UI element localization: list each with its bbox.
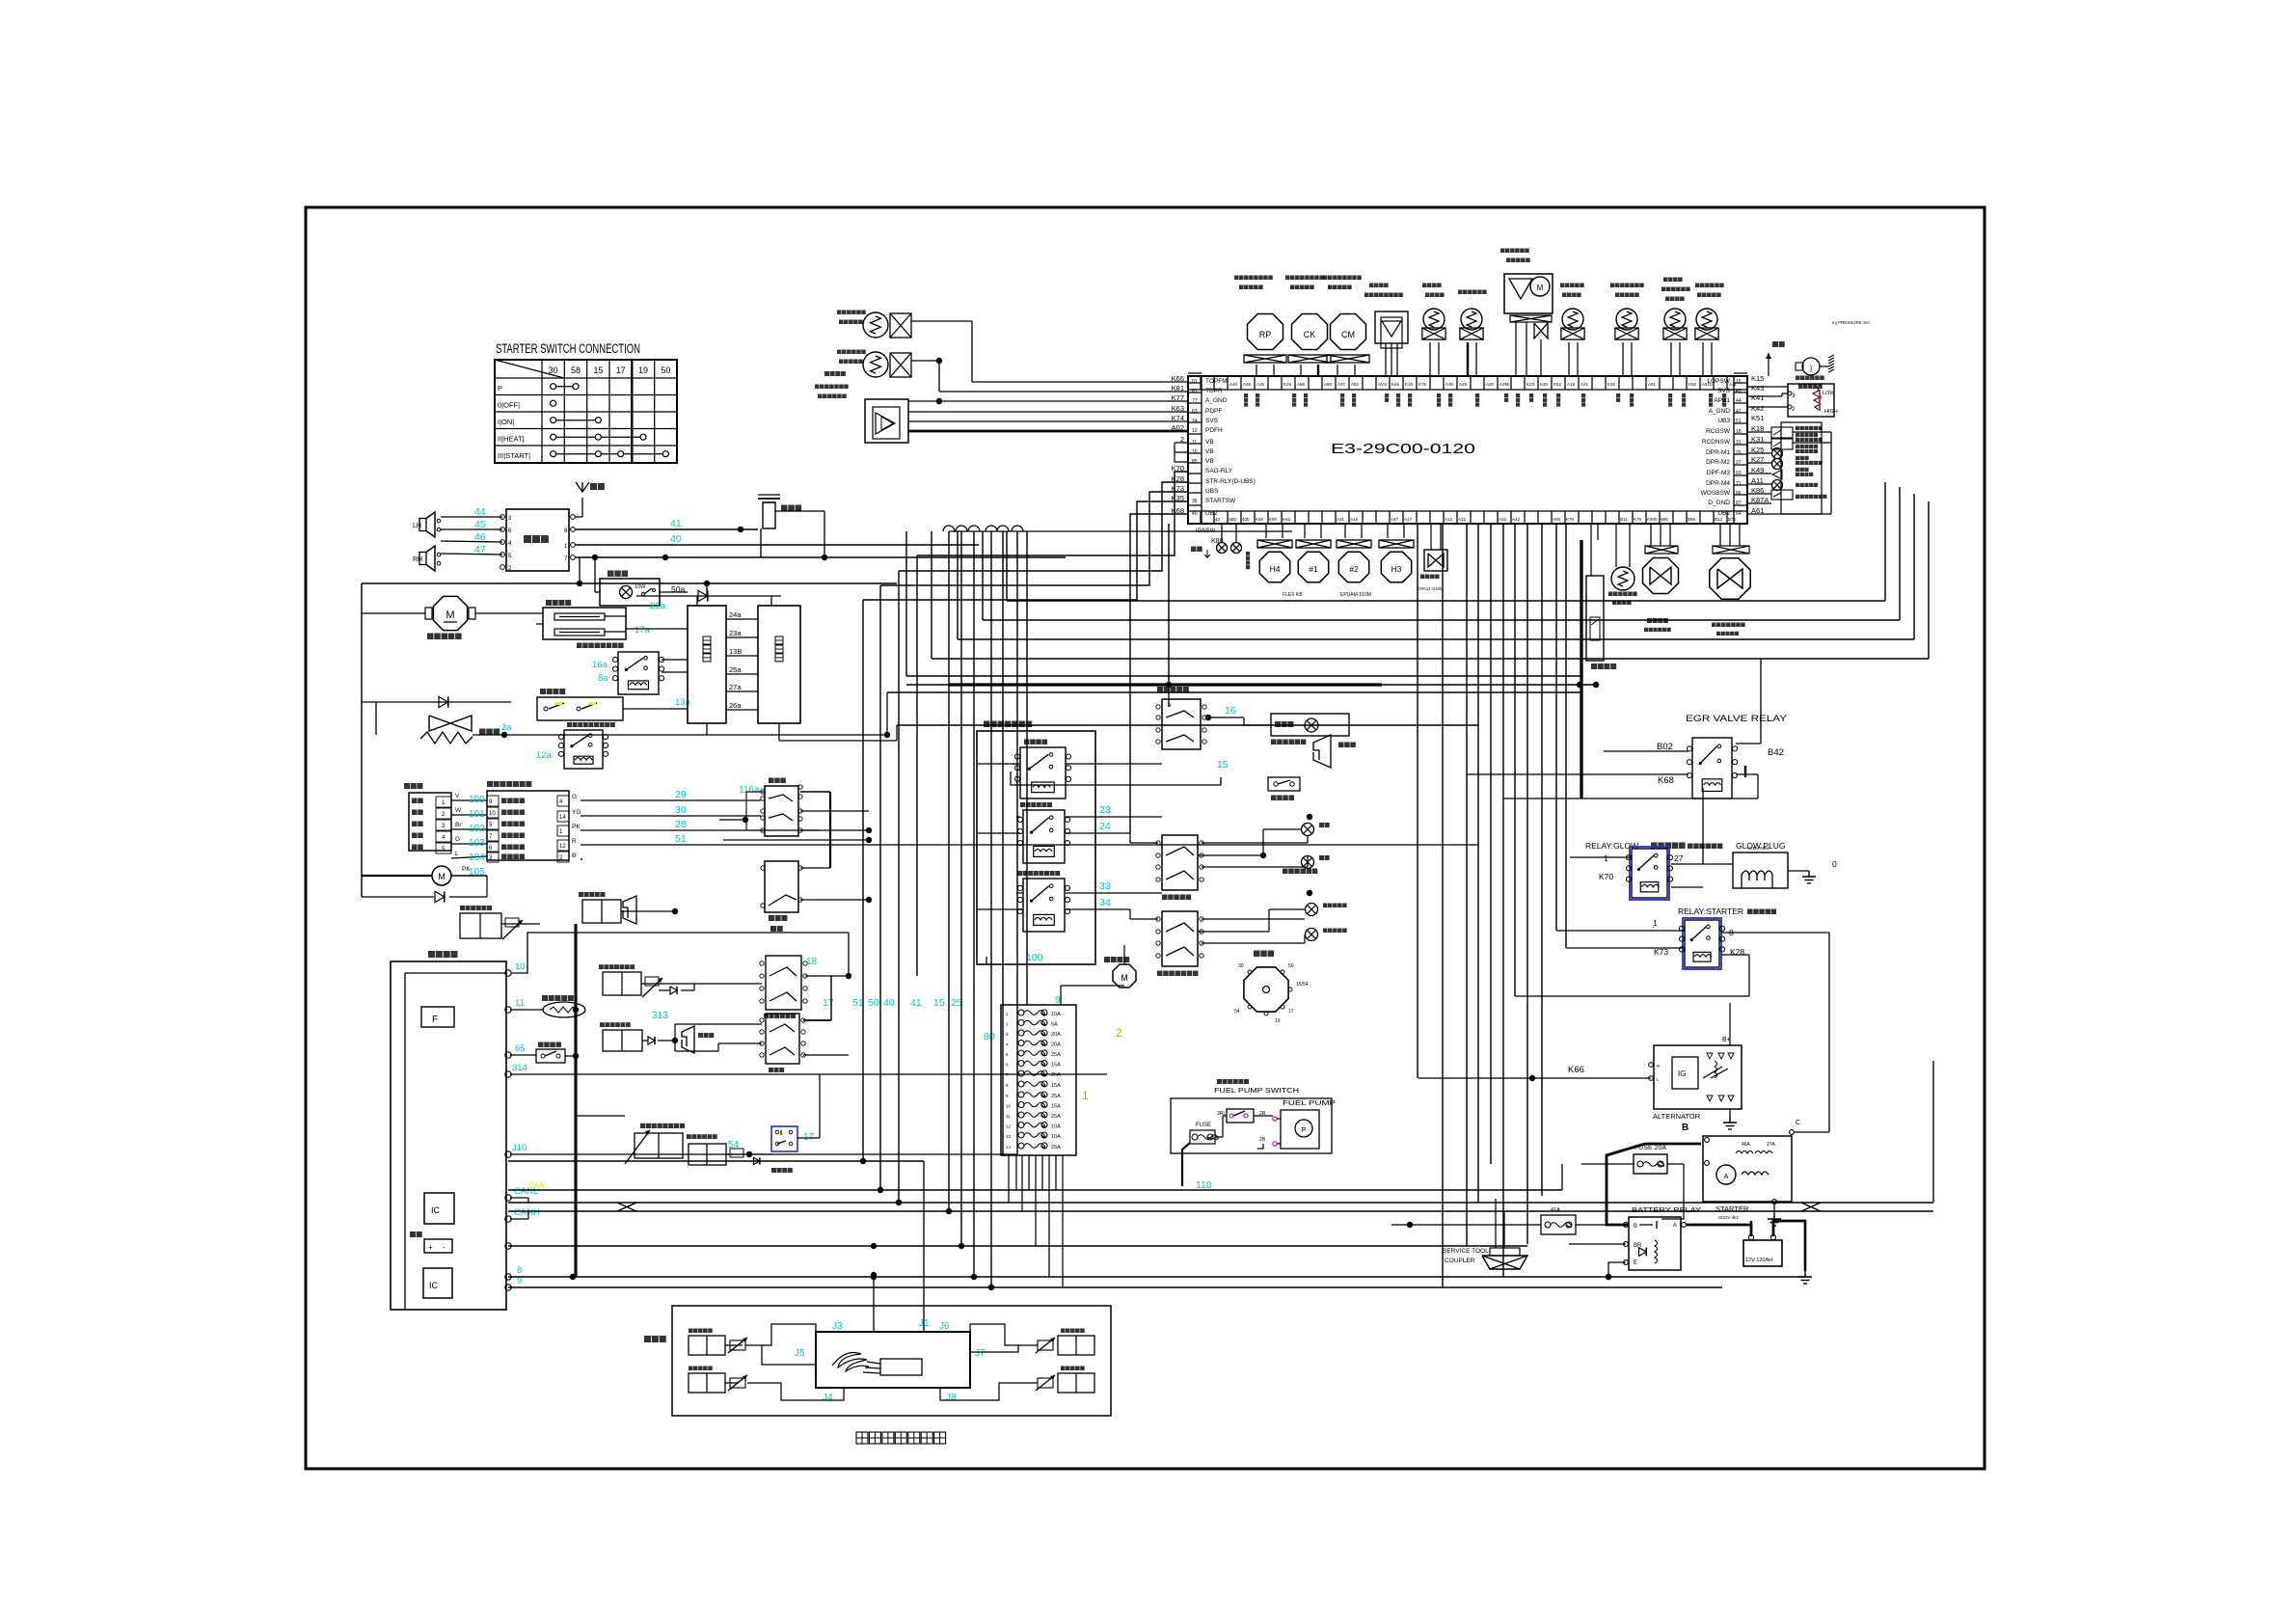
ECU bottom pin strip	[1188, 510, 1747, 512]
svg-text:58: 58	[571, 365, 581, 375]
svg-text:8: 8	[517, 1265, 522, 1276]
CAN pair	[508, 1202, 1933, 1204]
wire 50a diode	[636, 595, 781, 597]
svg-text:44: 44	[474, 506, 486, 518]
svg-text:27a: 27a	[729, 683, 742, 691]
turn lamps	[1302, 824, 1314, 836]
svg-text:30: 30	[1238, 963, 1244, 969]
svg-text:#2: #2	[1349, 564, 1359, 574]
indicator stack	[1781, 422, 1822, 514]
svg-text:A06: A06	[1553, 517, 1561, 522]
svg-text:A29b: A29b	[1499, 382, 1510, 387]
svg-text:14: 14	[559, 815, 566, 821]
wiper diode	[362, 896, 434, 898]
svg-text:40b: 40b	[1242, 517, 1250, 522]
svg-text:25: 25	[1736, 450, 1742, 456]
svg-text:YG: YG	[572, 809, 581, 816]
horn valve box	[582, 900, 621, 923]
svg-text:SERVICE TOOL: SERVICE TOOL	[1443, 1248, 1489, 1255]
svg-text:54: 54	[1234, 1009, 1240, 1015]
svg-text:80: 80	[984, 1031, 995, 1042]
exhaust throttle	[1713, 546, 1749, 554]
svg-text:12V 120AH: 12V 120AH	[1745, 1258, 1772, 1263]
svg-text:+: +	[428, 1243, 433, 1252]
svg-text:K52: K52	[1553, 382, 1562, 387]
svg-text:J8: J8	[946, 1393, 957, 1403]
svg-text:41: 41	[670, 518, 682, 529]
joystick outer box	[672, 1306, 1111, 1416]
svg-text:15A: 15A	[1051, 1104, 1061, 1110]
ECU top pin strip	[1188, 389, 1747, 391]
svg-text:H3: H3	[1391, 564, 1402, 574]
wire radio pin7	[575, 556, 1066, 558]
svg-text:F: F	[432, 1015, 438, 1025]
svg-text:0: 0	[1832, 859, 1837, 869]
svg-text:A: A	[1724, 1174, 1729, 1180]
wires ECU right to pot	[1747, 386, 1788, 388]
svg-text:COUPLER: COUPLER	[1445, 1258, 1475, 1264]
svg-text:A52: A52	[1351, 382, 1360, 387]
svg-text:25A: 25A	[1051, 1052, 1061, 1058]
svg-text:K90: K90	[1269, 517, 1278, 522]
svg-text:DPF-M3: DPF-M3	[1707, 470, 1731, 476]
svg-text:10W: 10W	[635, 584, 646, 590]
svg-text:J5: J5	[795, 1348, 805, 1359]
joystick title	[856, 1432, 868, 1444]
left vertical bus bundle	[862, 600, 864, 1161]
svg-text:110: 110	[1196, 1179, 1212, 1191]
middle horizontal buses	[508, 1160, 924, 1162]
svg-text:28: 28	[675, 819, 687, 830]
svg-text:47: 47	[474, 544, 486, 555]
svg-text:A32: A32	[1499, 517, 1507, 522]
svg-text:BR: BR	[1634, 1243, 1642, 1249]
svg-text:81: 81	[1192, 389, 1198, 394]
svg-text:B: B	[572, 853, 576, 859]
svg-text:VB: VB	[1205, 448, 1214, 455]
sensor CM cam speed	[1331, 314, 1366, 350]
throttle switch small	[536, 1049, 565, 1063]
svg-text:K51: K51	[1751, 414, 1764, 422]
svg-text:30: 30	[675, 804, 687, 816]
drawing border frame	[306, 207, 1985, 1469]
svg-text:FUEL PUMP SWITCH: FUEL PUMP SWITCH	[1214, 1088, 1299, 1095]
antenna	[581, 498, 583, 517]
svg-text:K76: K76	[1634, 517, 1642, 522]
svg-text:M: M	[1121, 973, 1128, 983]
svg-text:B90: B90	[1661, 517, 1669, 522]
MAF valve	[1645, 546, 1678, 554]
svg-text:APS1: APS1	[1714, 397, 1730, 404]
accelerator potentiometer	[1788, 384, 1834, 417]
svg-text:H4: H4	[1270, 564, 1281, 574]
svg-text:100: 100	[1026, 952, 1043, 963]
svg-text:27A: 27A	[1767, 1142, 1776, 1148]
svg-text:11: 11	[515, 998, 525, 1009]
bus 1335	[508, 1286, 1722, 1288]
buzzer	[682, 1026, 694, 1053]
svg-text:DPR-M2: DPR-M2	[1706, 459, 1730, 466]
svg-text:6CDV-5Mw: 6CDV-5Mw	[1747, 846, 1770, 851]
svg-text:13a: 13a	[675, 697, 691, 708]
horn button	[1268, 777, 1300, 791]
room lamp box	[600, 579, 660, 606]
DPF outlet temp sensor	[863, 352, 888, 377]
svg-text:12: 12	[1192, 428, 1198, 434]
svg-text:K66: K66	[1568, 1065, 1584, 1075]
power resistor	[429, 716, 472, 731]
svg-text:9: 9	[1055, 994, 1061, 1006]
svg-text:I|ON|: I|ON|	[498, 418, 514, 426]
svg-text:5A: 5A	[1051, 1022, 1058, 1028]
svg-text:26a: 26a	[729, 701, 742, 710]
monitor panel box	[391, 961, 506, 1310]
svg-text:A: A	[1673, 1223, 1677, 1229]
fuel pump group	[1171, 1098, 1332, 1153]
svg-text:2B: 2B	[1259, 1137, 1266, 1143]
svg-text:A21: A21	[1580, 382, 1589, 387]
svg-text:W: W	[455, 807, 462, 814]
svg-text:K30: K30	[1607, 382, 1616, 387]
svg-text:SAO-RLY: SAO-RLY	[1205, 468, 1233, 474]
reverse switch block	[766, 1014, 799, 1064]
svg-text:24: 24	[1099, 821, 1111, 832]
svg-text:IC: IC	[431, 1205, 441, 1215]
svg-text:104: 104	[469, 853, 485, 863]
intake throttle assembly	[1504, 274, 1553, 313]
svg-text:25: 25	[951, 997, 962, 1009]
left bus stair turns from ECU rows	[917, 472, 1188, 555]
svg-text:STARTSW: STARTSW	[1205, 498, 1236, 504]
svg-text:20A: 20A	[1051, 1042, 1061, 1048]
svg-text:50a: 50a	[671, 584, 685, 594]
svg-text:15/54: 15/54	[1296, 982, 1309, 988]
svg-text:CK: CK	[1304, 330, 1316, 339]
svg-text:G: G	[572, 794, 577, 800]
thick B wire	[1607, 1144, 1701, 1225]
alternator	[1654, 1045, 1742, 1109]
svg-text:10: 10	[489, 811, 496, 817]
svg-text:E: E	[1634, 1260, 1637, 1266]
svg-text:G: G	[455, 836, 460, 843]
svg-text:12a: 12a	[536, 750, 553, 761]
svg-text:SCDV-4k1: SCDV-4k1	[1718, 1215, 1740, 1220]
svg-text:11: 11	[1006, 1114, 1011, 1119]
ECU right pin strip	[1733, 376, 1735, 524]
svg-text:L: L	[455, 851, 459, 857]
svg-text:ALTERNATOR: ALTERNATOR	[1653, 1112, 1701, 1121]
radio unit	[506, 509, 569, 571]
wire battery relay BR E	[1569, 1243, 1626, 1245]
right vertical bus bundle	[1417, 524, 1418, 1078]
svg-text:UBS: UBS	[1205, 488, 1219, 495]
svg-text:FUSE: FUSE	[1196, 1123, 1211, 1128]
wire 23 24	[1066, 816, 1162, 818]
IC box 2	[423, 1268, 452, 1298]
AC to bus links	[706, 723, 708, 735]
wire glow	[1570, 856, 1632, 858]
svg-text:10A: 10A	[1051, 1012, 1061, 1017]
svg-text:20A: 20A	[1051, 1032, 1061, 1038]
svg-text:40: 40	[1192, 511, 1198, 517]
thick monitor bus	[574, 924, 577, 1277]
svg-text:LOPSW: LOPSW	[1708, 378, 1731, 385]
svg-text:K70: K70	[1599, 872, 1613, 881]
svg-text:EGR VALVE RELAY: EGR VALVE RELAY	[1686, 714, 1788, 724]
fuse F box	[421, 1007, 454, 1027]
pressure switch	[1586, 576, 1604, 661]
svg-text:VB: VB	[1205, 458, 1214, 465]
svg-text:UB3: UB3	[1717, 418, 1730, 424]
svg-text:85: 85	[1192, 459, 1198, 465]
svg-text:116a: 116a	[739, 785, 760, 796]
svg-text:K76: K76	[1418, 382, 1427, 387]
wire 41 radio to lighter bus	[575, 528, 758, 530]
svg-text:2a: 2a	[501, 722, 512, 733]
svg-text:M: M	[1537, 284, 1544, 292]
K68 wire	[1130, 514, 1188, 833]
speed resistor box	[543, 608, 626, 639]
svg-text:FUEL PUMP: FUEL PUMP	[1283, 1100, 1336, 1107]
svg-text:15: 15	[593, 365, 603, 375]
svg-text:11: 11	[1192, 440, 1197, 446]
svg-text:A_GND: A_GND	[1709, 408, 1731, 415]
svg-text:103: 103	[469, 838, 485, 849]
travel switch blue	[771, 1126, 797, 1151]
svg-text:25A: 25A	[1051, 1094, 1061, 1099]
svg-text:01: 01	[1192, 379, 1198, 385]
reverse wires	[642, 1040, 648, 1042]
svg-text:A60: A60	[1324, 382, 1333, 387]
wiper motor	[432, 866, 451, 885]
svg-text:102: 102	[469, 824, 485, 834]
svg-text:B: B	[1634, 1224, 1637, 1230]
svg-text:C: C	[1796, 1120, 1800, 1126]
svg-text:K45: K45	[1391, 382, 1400, 387]
svg-text:A26: A26	[1243, 382, 1252, 387]
svg-text:K75: K75	[1566, 517, 1575, 522]
work lamps	[1306, 904, 1318, 916]
svg-text:19: 19	[638, 365, 648, 375]
svg-text:65: 65	[515, 1043, 526, 1054]
svg-text:10A: 10A	[1051, 1134, 1061, 1140]
svg-text:25A: 25A	[1051, 1114, 1061, 1120]
svg-text:64: 64	[1736, 511, 1742, 517]
travel solenoid valve box	[603, 972, 641, 995]
svg-text:K20: K20	[1540, 382, 1549, 387]
svg-text:12: 12	[1006, 1124, 1012, 1129]
AC row links	[726, 618, 758, 620]
svg-text:45: 45	[474, 519, 486, 530]
svg-text:10: 10	[1006, 1104, 1012, 1109]
svg-text:0|OFF|: 0|OFF|	[498, 401, 520, 410]
svg-text:TDPR: TDPR	[1205, 388, 1223, 394]
svg-text:16a: 16a	[592, 660, 608, 670]
svg-text:K50: K50	[1256, 517, 1264, 522]
fuse box	[1001, 1005, 1076, 1155]
pump proportional valve label	[640, 1123, 645, 1128]
svg-text:J3: J3	[832, 1321, 843, 1332]
svg-text:K29: K29	[1283, 382, 1292, 387]
wire bumps under ECU	[943, 526, 955, 531]
svg-text:1: 1	[1082, 1089, 1089, 1102]
svg-text:D_GND: D_GND	[1708, 500, 1730, 506]
svg-text:A56: A56	[1297, 382, 1306, 387]
svg-text:13B: 13B	[729, 647, 742, 656]
wire relay to AC	[662, 659, 688, 661]
svg-text:WOSBSW: WOSBSW	[1701, 490, 1731, 497]
svg-text:15: 15	[1217, 759, 1229, 771]
SCV valve	[1424, 550, 1447, 571]
svg-text:SVS: SVS	[1717, 388, 1731, 394]
svg-text:40: 40	[1215, 517, 1221, 522]
travel speed solenoid box	[460, 913, 501, 938]
svg-text:17: 17	[616, 365, 626, 375]
washer switch	[765, 861, 798, 912]
svg-text:K23: K23	[1526, 382, 1535, 387]
svg-text:RCDNSW: RCDNSW	[1702, 439, 1731, 446]
cluster wires	[576, 1115, 625, 1117]
fuse 41A	[1541, 1215, 1576, 1234]
ambient temp sensor	[1423, 309, 1445, 330]
intake mani temp sensor	[1616, 309, 1637, 330]
svg-text:RH: RH	[413, 556, 422, 563]
svg-text:CM: CM	[1341, 330, 1355, 339]
warning lamp box	[1271, 714, 1349, 736]
svg-text:VB: VB	[1205, 439, 1214, 446]
svg-text:B11: B11	[1620, 517, 1628, 522]
AC blower motor	[433, 596, 467, 630]
wire 2a	[473, 734, 721, 736]
svg-text:STARTER SWITCH CONNECTION: STARTER SWITCH CONNECTION	[496, 341, 640, 356]
svg-text:71: 71	[1736, 481, 1742, 487]
svg-text:LOW: LOW	[1823, 391, 1835, 396]
left frame risers	[361, 583, 363, 897]
svg-text:B66: B66	[1688, 517, 1696, 522]
fusebox bottom wires	[1008, 1155, 1010, 1203]
svg-text:74: 74	[1192, 419, 1198, 424]
bus 1323	[508, 1276, 1805, 1278]
svg-text:14: 14	[1006, 1145, 1012, 1150]
prop solenoid left top	[689, 1336, 725, 1355]
blower relay 16a	[618, 652, 659, 694]
left section bus 605	[362, 582, 897, 584]
svg-text:18: 18	[806, 957, 818, 967]
resister bulb	[1611, 567, 1634, 590]
svg-text:1: 1	[1604, 853, 1608, 863]
exh gas temp sensor	[1664, 309, 1686, 330]
svg-text:13: 13	[1006, 1134, 1012, 1139]
svg-text:A47: A47	[1391, 517, 1399, 522]
svg-text:SVS: SVS	[1378, 382, 1387, 387]
svg-text:41: 41	[910, 997, 922, 1009]
svg-text:A29: A29	[1459, 382, 1468, 387]
central relay box	[977, 731, 1095, 964]
svg-text:J7: J7	[975, 1348, 986, 1359]
svg-text:K56: K56	[1688, 382, 1697, 387]
svg-text:P: P	[498, 384, 502, 392]
horn relay	[1020, 747, 1066, 798]
svg-text:UB2: UB2	[1717, 510, 1730, 517]
CMP temp sensor	[1562, 309, 1583, 330]
svg-text:EPUAM-510M: EPUAM-510M	[1340, 592, 1371, 598]
wire K66	[1418, 1077, 1651, 1079]
svg-text:UB2: UB2	[1205, 510, 1218, 517]
svg-text:25a: 25a	[729, 665, 742, 674]
injector H4	[1259, 552, 1289, 582]
svg-text:54: 54	[728, 1140, 740, 1150]
svg-text:24a: 24a	[729, 610, 742, 619]
svg-text:A25: A25	[1256, 382, 1265, 387]
inlet temp sensor	[1696, 309, 1717, 330]
svg-text:21a: 21a	[650, 601, 666, 611]
svg-text:J4: J4	[823, 1393, 833, 1403]
wire starter relay	[1556, 930, 1685, 932]
kill switch box	[537, 697, 623, 720]
svg-text:II|HEAT|: II|HEAT|	[498, 435, 525, 444]
svg-text:R: R	[572, 838, 577, 845]
starter	[1703, 1136, 1792, 1202]
svg-text:50: 50	[868, 997, 879, 1009]
VB bracket	[1175, 442, 1188, 444]
prop solenoid right bottom	[1058, 1373, 1094, 1393]
svg-text:CANH: CANH	[514, 1207, 540, 1218]
svg-text:29: 29	[675, 789, 687, 800]
svg-text:40: 40	[883, 997, 895, 1009]
bus 1290	[508, 1245, 1527, 1247]
svg-text:33: 33	[1099, 880, 1111, 892]
wire 40	[575, 544, 979, 546]
svg-text:J6: J6	[939, 1321, 950, 1332]
svg-text:27: 27	[1674, 853, 1684, 863]
svg-text:E3-29C00-0120: E3-29C00-0120	[1331, 441, 1475, 457]
svg-text:Inj PRESSURE Snr: Inj PRESSURE Snr	[1832, 320, 1871, 325]
svg-text:III|START|: III|START|	[498, 451, 530, 460]
svg-text:B12: B12	[1715, 517, 1723, 522]
alarm horn	[623, 896, 636, 924]
starter switch connection table	[495, 360, 677, 463]
svg-text:A51: A51	[1648, 382, 1657, 387]
joystick center unit	[816, 1332, 970, 1388]
svg-text:A12: A12	[1458, 517, 1467, 522]
flasher relay	[1023, 810, 1065, 863]
svg-text:51: 51	[852, 997, 864, 1009]
svg-text:A40: A40	[1229, 382, 1238, 387]
svg-text:25A: 25A	[1051, 1072, 1061, 1078]
svg-text:STR-RLY(D-UBS): STR-RLY(D-UBS)	[1205, 478, 1256, 485]
wiper sensor block	[409, 793, 451, 851]
svg-text:IC: IC	[429, 1281, 439, 1290]
svg-text:K50b: K50b	[1647, 517, 1658, 522]
svg-text:RCGSW: RCGSW	[1706, 428, 1731, 435]
svg-text:-: -	[443, 1243, 446, 1252]
svg-text:A30: A30	[1445, 382, 1454, 387]
svg-text:17a: 17a	[635, 625, 651, 636]
thick center bus	[906, 684, 949, 686]
svg-text:101: 101	[469, 809, 485, 820]
wires sensor to controller	[451, 799, 487, 801]
svg-text:16: 16	[1225, 705, 1236, 717]
wire fuse to fuel pump	[1181, 1190, 1183, 1203]
wire 110	[1182, 1137, 1190, 1144]
svg-text:B: B	[1682, 1123, 1688, 1133]
evaporator box	[758, 606, 800, 723]
svg-text:RELAY:STARTER: RELAY:STARTER	[1678, 907, 1743, 916]
svg-text:CAN: CAN	[528, 1181, 545, 1190]
pump prop solenoid	[635, 1133, 683, 1158]
DPF MIDB temp sensor	[863, 312, 888, 338]
accelerator sensor	[1768, 353, 1769, 376]
